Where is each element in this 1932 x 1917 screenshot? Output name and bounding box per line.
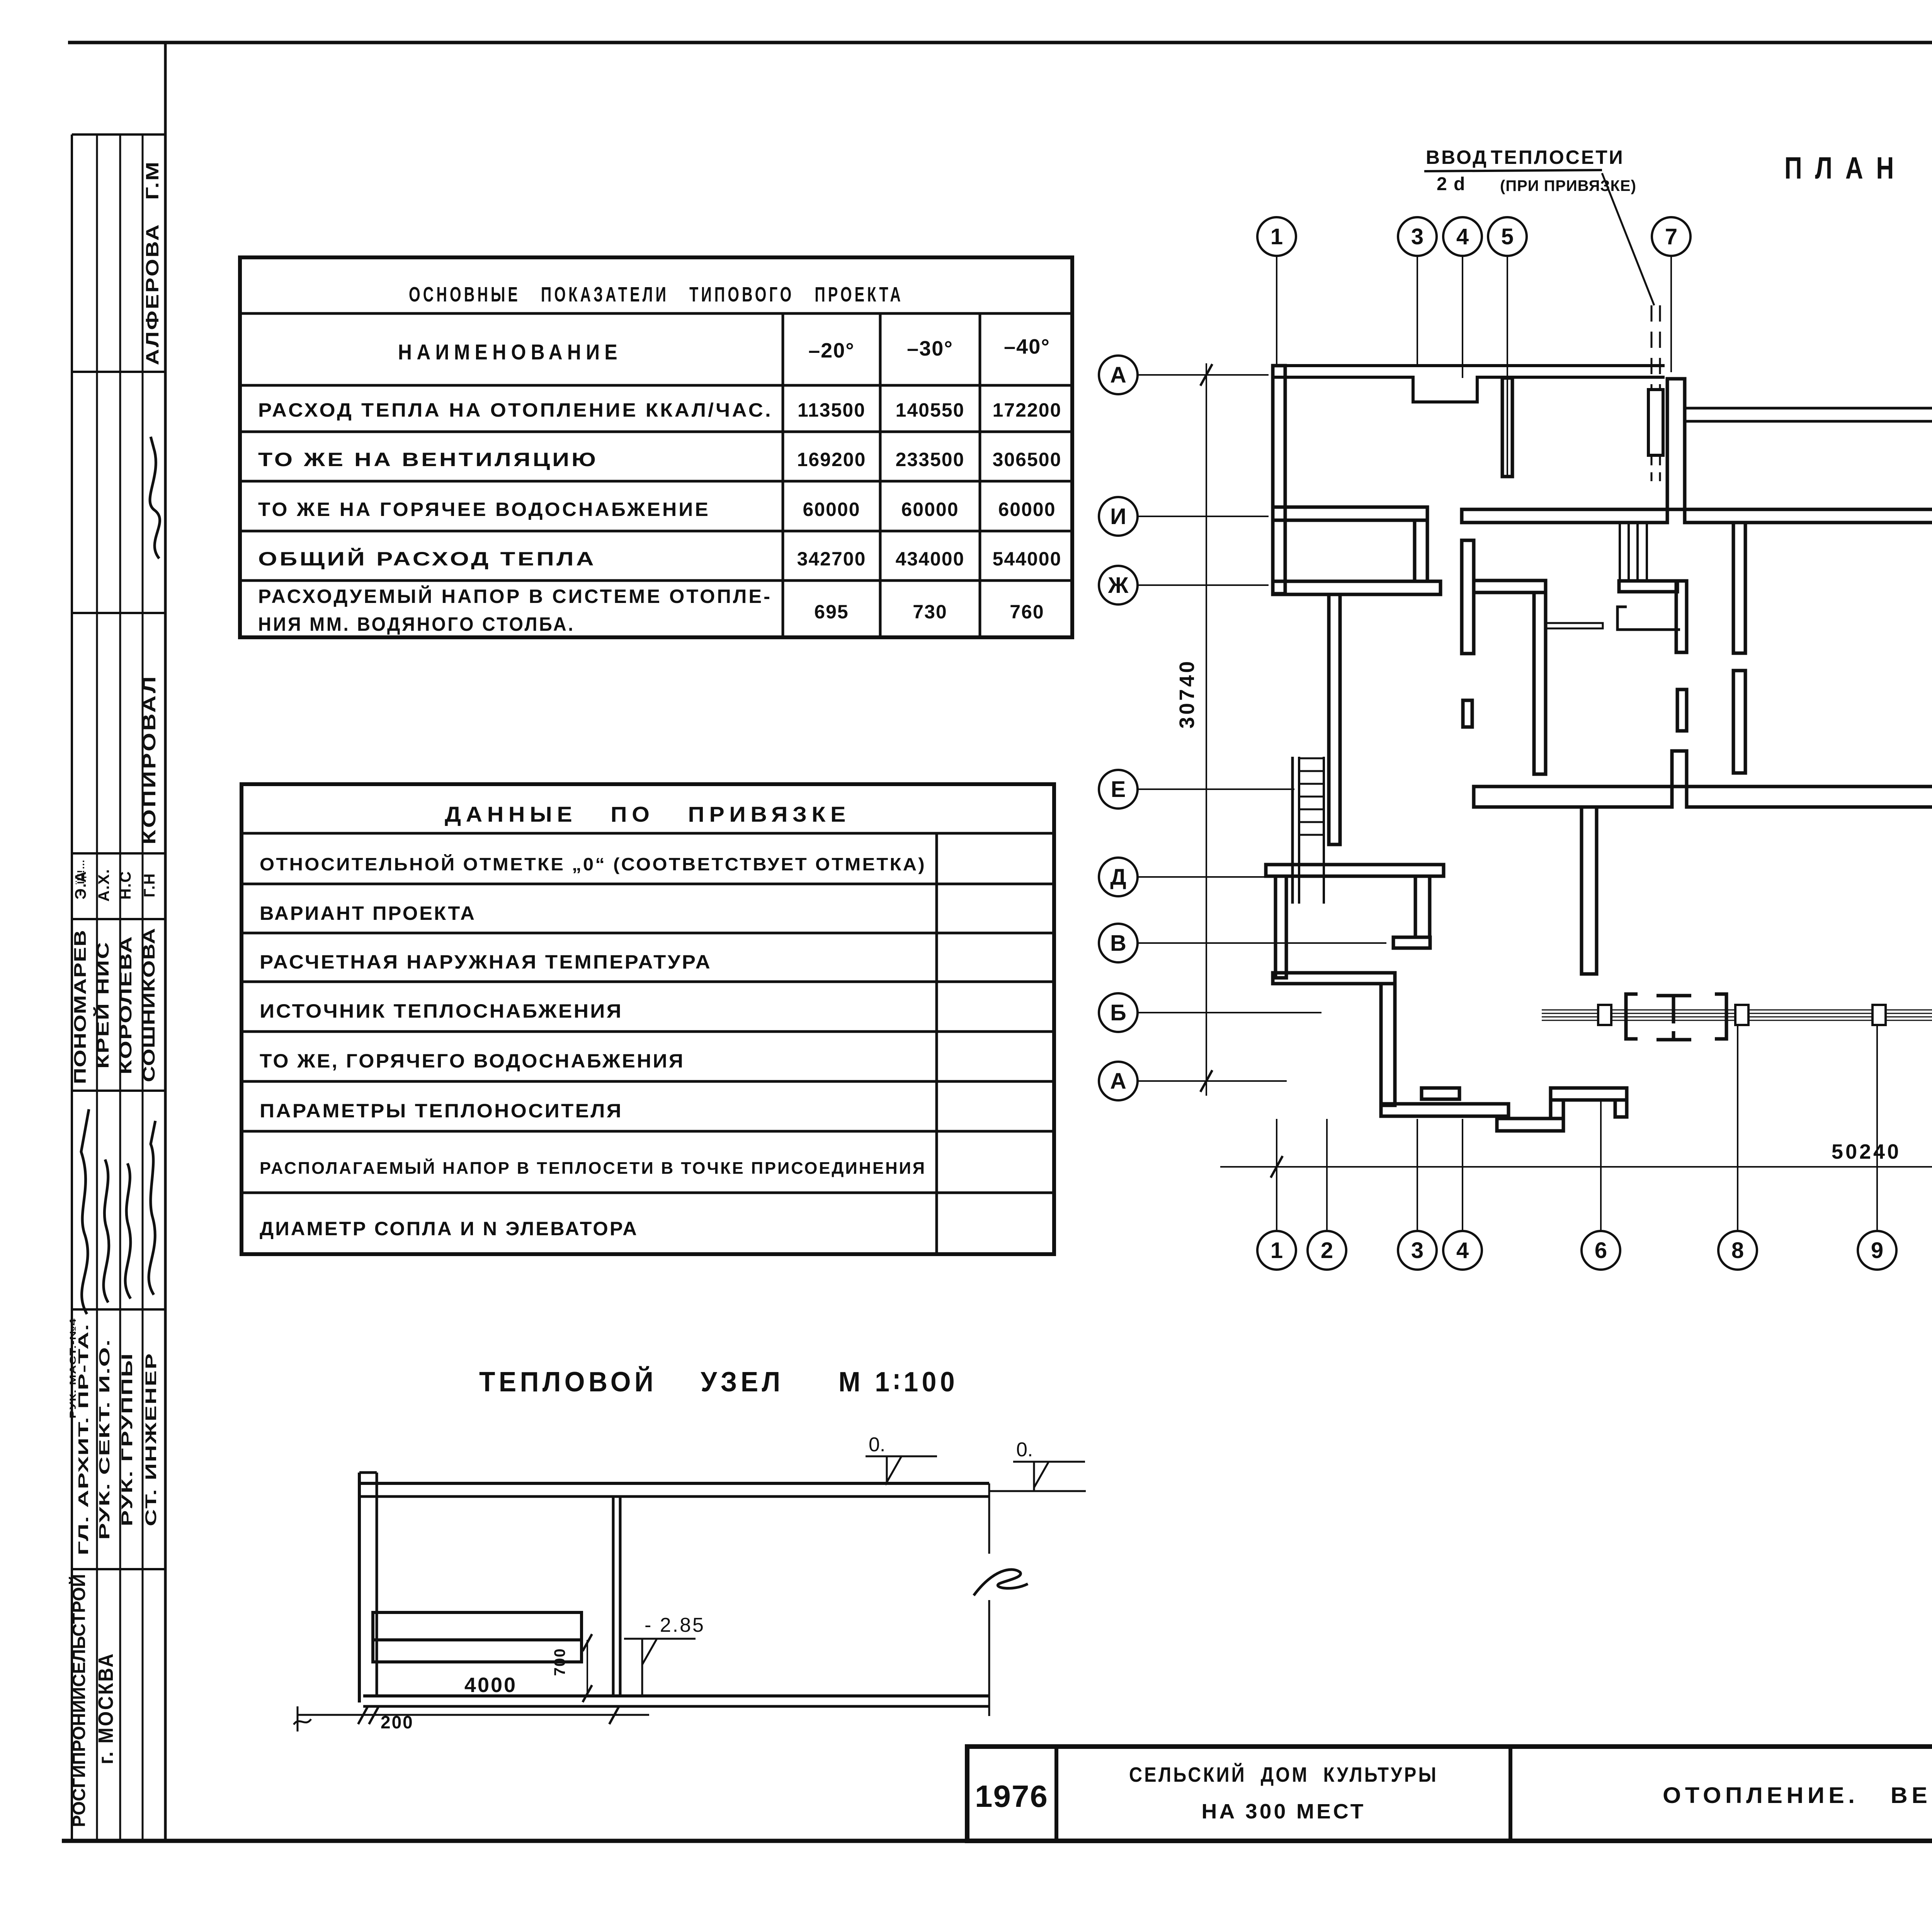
svg-text:50240: 50240: [1832, 1140, 1901, 1163]
wall: hall west wall: [1582, 807, 1597, 974]
svg-text:РАСХОД ТЕПЛА НА ОТОПЛЕНИЕ ККАЛ: РАСХОД ТЕПЛА НА ОТОПЛЕНИЕ ККАЛ/ЧАС.: [258, 399, 773, 421]
axis circle top 3: [1398, 217, 1437, 256]
wall: axis 7 wall: [1667, 379, 1685, 509]
section: elevation mark -2.85: [624, 1614, 705, 1696]
wall: axis И wall west segment: [1273, 507, 1427, 520]
axis circle bottom 6: [1582, 1231, 1620, 1270]
axis circle left А: [1099, 356, 1138, 394]
svg-text:Н.С: Н.С: [117, 871, 134, 900]
axis circle bottom 2: [1308, 1231, 1346, 1270]
svg-text:730: 730: [913, 601, 947, 623]
left axis leader lines: [1138, 375, 1386, 1081]
flange symbol T lower: [1656, 1031, 1691, 1040]
svg-text:РАСХОДУЕМЫЙ НАПОР В СИСТЕМЕ ОТ: РАСХОДУЕМЫЙ НАПОР В СИСТЕМЕ ОТОПЛЕ-: [258, 585, 772, 607]
svg-text:2 d: 2 d: [1437, 174, 1466, 194]
svg-text:760: 760: [1010, 601, 1044, 623]
svg-text:140550: 140550: [896, 399, 965, 421]
svg-text:ОСНОВНЫЕ ПОКАЗАТЕЛИ ТИПОВО: ОСНОВНЫЕ ПОКАЗАТЕЛИ ТИПОВОГО ПРОЕКТА: [409, 283, 903, 306]
svg-text:3: 3: [1411, 1238, 1423, 1263]
axis circle bottom 3: [1398, 1231, 1437, 1270]
wall: И wall centre segment: [1462, 509, 1667, 523]
svg-text:ТО ЖЕ, ГОРЯЧЕГО ВОДОСНАБЖЕНИЯ: ТО ЖЕ, ГОРЯЧЕГО ВОДОСНАБЖЕНИЯ: [260, 1050, 685, 1072]
svg-text:КОРОЛЕВА: КОРОЛЕВА: [116, 935, 135, 1074]
section: elevation mark 0. (right): [1013, 1439, 1085, 1491]
wall: shaft east wall: [1676, 581, 1687, 652]
svg-text:4000: 4000: [464, 1674, 517, 1697]
section: thin line continuing right: [989, 1490, 1086, 1492]
section: top slab double line: [359, 1482, 989, 1485]
svg-text:АЛФЕРОВА Г.М: АЛФЕРОВА Г.М: [142, 160, 162, 365]
svg-text:695: 695: [814, 601, 849, 623]
section: tank rectangle: [373, 1612, 582, 1662]
svg-text:172200: 172200: [993, 399, 1062, 421]
svg-text:ИСТОЧНИК ТЕПЛОСНАБЖЕНИЯ: ИСТОЧНИК ТЕПЛОСНАБЖЕНИЯ: [260, 1000, 623, 1022]
title block: object name: [1129, 1763, 1438, 1823]
section: left wall: [359, 1473, 377, 1702]
wall: axis В wall: [1273, 973, 1395, 984]
svg-text:169200: 169200: [797, 449, 866, 470]
heating inlet dashed pipes: [1651, 305, 1653, 390]
wall: left building top inner line with entrance notch: [1272, 377, 1665, 402]
svg-text:РАСПОЛАГАЕМЫЙ НАПОР В ТЕПЛОСЕТ: РАСПОЛАГАЕМЫЙ НАПОР В ТЕПЛОСЕТИ В ТОЧКЕ …: [260, 1158, 926, 1178]
svg-text:СЕЛЬСКИЙ ДОМ КУЛЬТУРЫ: СЕЛЬСКИЙ ДОМ КУЛЬТУРЫ: [1129, 1763, 1438, 1786]
table 2: Данные по привязке — grid: [241, 784, 1054, 1254]
svg-text:РАСЧЕТНАЯ НАРУЖНАЯ ТЕМПЕРАТУРА: РАСЧЕТНАЯ НАРУЖНАЯ ТЕМПЕРАТУРА: [260, 951, 712, 973]
svg-text:Г.Н: Г.Н: [141, 873, 158, 897]
svg-text:А: А: [1110, 1069, 1126, 1094]
svg-text:–30°: –30°: [907, 337, 953, 360]
axis circle bottom 1: [1257, 1231, 1296, 1270]
svg-text:2: 2: [1321, 1238, 1333, 1263]
svg-text:Б: Б: [1110, 1000, 1126, 1025]
wall: bottom step vertical 2: [1615, 1100, 1627, 1117]
svg-text:СТ. ИНЖЕНЕР: СТ. ИНЖЕНЕР: [143, 1352, 160, 1526]
svg-text:7: 7: [1665, 224, 1677, 249]
svg-text:306500: 306500: [993, 449, 1062, 470]
wall: hall north wall west part: [1474, 787, 1672, 807]
svg-text:ГЛ. АРХИТ. ПР-ТА.: ГЛ. АРХИТ. ПР-ТА.: [75, 1323, 91, 1555]
top axis leader lines: [1277, 256, 1932, 477]
svg-text:- 2.85: - 2.85: [645, 1614, 705, 1636]
wall: axis 5 partition stub: [1502, 378, 1512, 477]
svg-text:ВАРИАНТ ПРОЕКТА: ВАРИАНТ ПРОЕКТА: [260, 902, 476, 924]
svg-text:5: 5: [1501, 224, 1514, 249]
svg-text:НА 300 МЕСТ: НА 300 МЕСТ: [1202, 1800, 1366, 1823]
table 1: Основные показатели типового проекта — grid: [240, 257, 1072, 637]
svg-text:30740: 30740: [1175, 659, 1199, 729]
svg-text:Д: Д: [1110, 865, 1126, 890]
expansion bracket ]: [1715, 994, 1726, 1039]
axis circle left Ж: [1099, 566, 1138, 604]
svg-text:И: И: [1110, 504, 1126, 529]
axis circle top 1: [1257, 217, 1296, 256]
svg-text:4: 4: [1456, 224, 1469, 249]
svg-text:П Л А Н М 1∶200: П Л А Н М 1∶200: [1784, 151, 1932, 185]
flange symbol T upper: [1656, 996, 1691, 1023]
wall: door stub at hall north wall: [1672, 751, 1687, 787]
svg-text:1976: 1976: [975, 1779, 1048, 1813]
pipe anchor nodes: [1598, 1005, 1932, 1025]
axis circle left Д: [1099, 858, 1138, 896]
wall: corridor wall below Ж: [1329, 594, 1340, 844]
axis circle left А: [1099, 1062, 1138, 1100]
svg-text:СОШНИКОВА: СОШНИКОВА: [139, 928, 158, 1082]
svg-text:0.: 0.: [1016, 1439, 1033, 1461]
svg-text:РУК. ГРУППЫ: РУК. ГРУППЫ: [119, 1352, 136, 1526]
svg-text:ЇЏ!…: ЇЏ!…: [75, 859, 87, 885]
strip signature squiggle (Алферова): [150, 437, 160, 558]
svg-text:ТО ЖЕ НА ГОРЯЧЕЕ ВОДОСНАБЖЕНИЕ: ТО ЖЕ НА ГОРЯЧЕЕ ВОДОСНАБЖЕНИЕ: [258, 499, 710, 520]
svg-text:ДАННЫЕ ПО ПРИВЯЗКЕ: ДАННЫЕ ПО ПРИВЯЗКЕ: [445, 802, 850, 826]
svg-text:ВВОД: ВВОД: [1426, 146, 1488, 168]
wall: partition below Д right: [1415, 876, 1430, 937]
wall: bottom wall segment 1: [1381, 1104, 1509, 1116]
svg-text:Е: Е: [1111, 777, 1126, 802]
sheet frame top border line: [68, 41, 1932, 44]
axis circle top 4: [1443, 217, 1482, 256]
wall: door stub above bottom wall: [1422, 1088, 1459, 1099]
svg-text:НАИМЕНОВАНИЕ: НАИМЕНОВАНИЕ: [398, 340, 622, 364]
ventilation shaft lines: [1620, 521, 1647, 581]
expansion bracket [: [1626, 994, 1638, 1039]
axis circle left Е: [1099, 770, 1138, 809]
svg-text:ОТОПЛЕНИЕ. ВЕНТИЛЯЦИЯ.: ОТОПЛЕНИЕ. ВЕНТИЛЯЦИЯ.: [1663, 1783, 1932, 1808]
table 1 data row 4: [258, 548, 1061, 570]
wall: Ж-level partition: [1474, 581, 1546, 592]
wall: bottom wall segment 2 (lower): [1497, 1119, 1563, 1131]
wall: west wall of lower block: [1381, 984, 1395, 1105]
small L partition: [1617, 607, 1680, 630]
heating inlet dashed pipes below riser: [1651, 455, 1653, 481]
wall: partition below Д: [1276, 876, 1286, 978]
wall: hall north wall east part: [1687, 787, 1932, 807]
title block grid: [967, 1747, 1932, 1841]
svg-text:А: А: [1110, 363, 1126, 388]
svg-text:ОБЩИЙ РАСХОД ТЕПЛА: ОБЩИЙ РАСХОД ТЕПЛА: [258, 548, 596, 570]
svg-text:ТО ЖЕ НА ВЕНТИЛЯЦИЮ: ТО ЖЕ НА ВЕНТИЛЯЦИЮ: [258, 449, 598, 470]
wall: long partition lower: [1733, 671, 1745, 773]
section: elevation mark 0. (left): [866, 1433, 937, 1483]
svg-text:РУК. СЕКТ. И.О.: РУК. СЕКТ. И.О.: [97, 1339, 113, 1540]
table 1 data row 3: [258, 499, 1056, 520]
table 1 header texts: [398, 335, 1050, 364]
svg-text:ПОНОМАРЕВ: ПОНОМАРЕВ: [71, 930, 90, 1084]
svg-text:233500: 233500: [896, 449, 965, 470]
axis circle left В: [1099, 924, 1138, 962]
svg-text:А.Х.: А.Х.: [95, 868, 112, 902]
svg-text:–20°: –20°: [808, 339, 855, 362]
axis circle bottom 8: [1718, 1231, 1757, 1270]
svg-text:КРЕЙ НИС: КРЕЙ НИС: [93, 941, 112, 1069]
axis circle left Б: [1099, 993, 1138, 1032]
svg-text:113500: 113500: [798, 399, 866, 421]
svg-text:9: 9: [1871, 1238, 1883, 1263]
svg-text:Ж: Ж: [1108, 573, 1129, 598]
svg-text:–40°: –40°: [1004, 335, 1050, 358]
svg-text:544000: 544000: [993, 548, 1062, 570]
table 1 data row 2: [258, 449, 1061, 470]
sheet frame bottom border line: [62, 1839, 1932, 1843]
wall: corridor bottom wall: [1685, 509, 1932, 523]
svg-text:342700: 342700: [797, 548, 866, 570]
svg-text:4: 4: [1456, 1238, 1469, 1263]
left vertical dimension line 30740: [1175, 363, 1212, 1096]
svg-text:1: 1: [1270, 224, 1283, 249]
svg-text:(ПРИ ПРИВЯЗКЕ): (ПРИ ПРИВЯЗКЕ): [1500, 177, 1636, 194]
wall: left building top outer line: [1272, 364, 1665, 367]
bottom horizontal dimension line 50240: [1220, 1140, 1932, 1178]
svg-text:8: 8: [1731, 1238, 1744, 1263]
section: bottom slab double line: [363, 1694, 989, 1697]
svg-text:г. МОСКВА: г. МОСКВА: [94, 1652, 117, 1764]
axis circle bottom 4: [1443, 1231, 1482, 1270]
svg-text:В: В: [1110, 931, 1126, 956]
svg-text:НИЯ ММ. ВОДЯНОГО СТОЛБА.: НИЯ ММ. ВОДЯНОГО СТОЛБА.: [258, 613, 575, 635]
wall: partition between И and Ж: [1415, 520, 1427, 581]
heating pipe run (4 parallel lines): [1542, 1010, 1932, 1020]
pillar: left mid: [1463, 700, 1472, 727]
section: bottom dimension 4000 / 200: [294, 1674, 649, 1732]
wall: axis Ж wall: [1273, 581, 1440, 594]
svg-text:КОПИРОВАЛ: КОПИРОВАЛ: [139, 674, 160, 844]
wall: long partition upper: [1733, 523, 1745, 653]
svg-text:60000: 60000: [803, 499, 860, 520]
svg-text:1: 1: [1270, 1238, 1283, 1263]
wall: corridor top double line: [1685, 407, 1932, 410]
axis circle left И: [1099, 497, 1138, 536]
svg-text:200: 200: [381, 1712, 414, 1732]
heating inlet riser rectangle: [1648, 390, 1663, 455]
svg-text:6: 6: [1595, 1238, 1607, 1263]
svg-text:60000: 60000: [901, 499, 959, 520]
svg-text:700: 700: [551, 1648, 568, 1676]
wall: bottom step vertical: [1551, 1100, 1563, 1119]
axis circle top 5: [1488, 217, 1527, 256]
wall: axis Д wall: [1266, 865, 1444, 876]
strip signatures column squiggles: [81, 1109, 155, 1314]
thin shelf line: [1546, 623, 1603, 628]
left signature strip horizontal separators: [72, 134, 165, 1569]
callout leader line: [1602, 173, 1654, 305]
wall: partition below И (left): [1462, 540, 1474, 654]
svg-text:ПАРАМЕТРЫ ТЕПЛОНОСИТЕЛЯ: ПАРАМЕТРЫ ТЕПЛОНОСИТЕЛЯ: [260, 1100, 623, 1122]
left signature strip vertical rules: [72, 43, 165, 1841]
wall: left building west wall: [1273, 366, 1285, 594]
svg-text:3: 3: [1411, 224, 1423, 249]
svg-text:РУК. МАСТ.-№4: РУК. МАСТ.-№4: [68, 1318, 78, 1418]
svg-text:434000: 434000: [896, 548, 965, 570]
wall: door lip below Д: [1393, 937, 1430, 948]
svg-text:60000: 60000: [998, 499, 1056, 520]
pillar: centre mid: [1677, 690, 1687, 731]
wall: partition down to hall: [1534, 592, 1546, 774]
svg-text:ДИАМЕТР СОПЛА И N ЭЛЕВАТОРА: ДИАМЕТР СОПЛА И N ЭЛЕВАТОРА: [260, 1218, 638, 1239]
table 1 data row 5 (two lines): [258, 585, 1044, 635]
staircase at axis Е: [1293, 757, 1324, 904]
svg-text:0.: 0.: [869, 1433, 885, 1456]
wall: bottom wall segment 3 (upper): [1551, 1088, 1627, 1100]
section: middle column double line: [612, 1496, 615, 1696]
section: right dim line with break: [974, 1483, 1028, 1716]
svg-text:ТЕПЛОСЕТИ: ТЕПЛОСЕТИ: [1491, 146, 1624, 168]
table 1 data row 1: [258, 399, 1061, 421]
bottom axis leader lines: [1277, 1024, 1932, 1231]
wall: under-shaft wall: [1619, 581, 1677, 592]
svg-text:ОТНОСИТЕЛЬНОЙ ОТМЕТКЕ „0“ (СОО: ОТНОСИТЕЛЬНОЙ ОТМЕТКЕ „0“ (СООТВЕТСТВУЕТ…: [260, 854, 926, 874]
axis circle bottom 9: [1858, 1231, 1896, 1270]
svg-text:РОСГИПРОНИИСЕЛЬСТРОЙ: РОСГИПРОНИИСЕЛЬСТРОЙ: [69, 1574, 89, 1827]
axis circle top 7: [1652, 217, 1690, 256]
section: vertical dim 700: [551, 1634, 592, 1702]
svg-text:ТЕПЛОВОЙ УЗЕЛ М 1∶100: ТЕПЛОВОЙ УЗЕЛ М 1∶100: [479, 1366, 958, 1398]
callout text Ввод теплосети 2d (при привязке): [1424, 146, 1636, 194]
